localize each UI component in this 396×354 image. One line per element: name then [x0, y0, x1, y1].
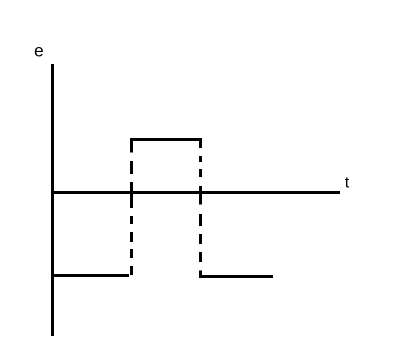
right dashed transition, dash 3: [199, 169, 202, 177]
right dashed transition, dash 2: [199, 156, 202, 162]
horizontal axis (t-axis): [51, 191, 340, 194]
waveform high segment (pulse top): [130, 138, 202, 141]
right dashed transition, dash 5: [199, 214, 202, 226]
axis label e: [34, 41, 44, 61]
left dashed transition, dash 2: [130, 161, 133, 174]
right dashed transition, dash 7: [199, 252, 202, 262]
left dashed transition, dash 4: [130, 216, 133, 224]
right dashed transition, dash 4 (crosses t-axis): [199, 186, 202, 205]
right dashed transition, dash 6: [199, 234, 202, 244]
waveform low segment 2: [199, 275, 273, 278]
left dashed transition, dash 1 (corner stub): [130, 138, 133, 153]
left dashed transition, dash 7: [130, 266, 133, 275]
right dashed transition, dash 1 (corner stub): [199, 138, 202, 148]
waveform low segment 1: [51, 274, 129, 277]
right dashed transition, dash 8 (corner stub): [199, 271, 202, 278]
svg-text:t: t: [345, 175, 350, 192]
svg-text:e: e: [34, 41, 44, 61]
axis label t: [345, 175, 350, 192]
vertical axis (e-axis): [51, 64, 54, 336]
left dashed transition, dash 6: [130, 249, 133, 258]
left dashed transition, dash 3 (crosses t-axis): [130, 182, 133, 208]
left dashed transition, dash 5: [130, 232, 133, 242]
